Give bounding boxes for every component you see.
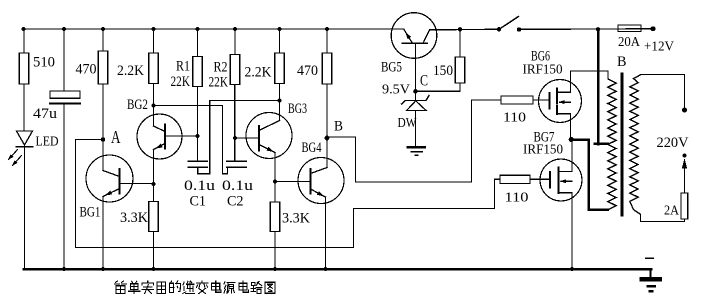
label 3.3K right [282,211,311,227]
fuse 20A [618,25,641,32]
junction R2 / rail [233,27,237,31]
transistor BG5 [391,13,437,92]
resistor 2.2K right [275,29,284,101]
svg-text:C2: C2 [227,194,244,210]
svg-text:BG3: BG3 [288,101,307,117]
fuse 2A [681,193,688,222]
svg-text:C: C [420,73,428,90]
svg-text:BG1: BG1 [80,205,101,221]
junction node C (zener/BG5 base/150) [413,89,418,94]
svg-text:C1: C1 [190,194,207,210]
junction top-left corner [21,27,25,31]
label 470 [76,62,97,78]
svg-text:470: 470 [297,63,318,79]
wire node A to BG7 gate resistor (left-down-right route) [76,140,501,248]
label 3.3K left [120,210,149,226]
svg-text:BG5: BG5 [381,60,402,76]
wire (thick) transformer centre tap to +12V rail [595,29,608,144]
resistor R2 22K [230,29,239,161]
label BG2 [127,97,148,113]
svg-text:3.3K: 3.3K [282,211,311,227]
junction 2.2K right / rail [277,27,281,31]
node B junction [325,136,330,141]
label 9.5V [382,82,410,97]
label 2A [664,203,679,218]
label R2 [214,60,228,76]
svg-text:22K: 22K [171,74,191,90]
label C [420,73,428,90]
label 0.1u (C2) [222,178,253,194]
label C1 [190,194,207,210]
svg-text:3.3K: 3.3K [120,210,149,226]
resistor 510 [19,29,28,131]
svg-text:22K: 22K [209,75,229,91]
junction 150 resistor / rail [458,27,462,31]
svg-text:LED: LED [36,134,59,149]
resistor 470 right [322,29,331,138]
capacitor C2 0.1u [227,85,247,168]
junction 2.2K resistor / rail [151,27,155,31]
svg-text:IRF150: IRF150 [523,142,563,157]
label 470 right [297,63,318,79]
svg-text:+12V: +12V [644,40,674,55]
svg-text:R2: R2 [214,60,228,76]
MOSFET BG6 IRF150 [539,71,582,140]
label LED [36,134,59,149]
transformer T1 primary winding (and wire from BG6 drain) [571,71,617,210]
transformer T1 core [620,74,623,215]
svg-text:A: A [111,127,121,147]
label 510 [33,55,55,71]
junction BG3 base node (R2/C2) [233,136,237,140]
junction BG2 base node (R1/C1) [195,134,199,138]
svg-text:BG2: BG2 [127,97,148,113]
label 47u [33,106,57,122]
resistor 3.3K right [270,182,279,270]
resistor 2.2K left [149,29,158,106]
label 22K (R1) [171,74,191,90]
wire node B to BG6 gate resistor (right-down-right-up route) [327,100,501,182]
label BG1 [80,205,101,221]
resistor 110 (BG7 gate) [500,175,549,183]
junction transformer centre tap / rail [596,27,600,31]
svg-text:2.2K: 2.2K [117,63,144,79]
label 20A [618,34,640,49]
label IRF150 (BG6) [523,62,563,77]
label BG4 [302,140,323,156]
output terminal lower arrow [682,153,687,193]
svg-text:110: 110 [505,191,529,206]
junction 470 resistor / rail [101,27,105,31]
junction BG1 emitter / rail [101,267,105,271]
transistor BG2 [137,106,198,185]
junction BG3 collector node [277,98,281,102]
label BG6 [531,49,550,65]
label +12V [644,40,674,55]
junction BG2 collector node [151,103,155,107]
junction BG6 source - BG7 drain - primary lower end [569,137,574,142]
MOSFET BG7 IRF150 [540,140,582,270]
junction BG4 emitter / rail [323,267,327,271]
label B [334,119,343,135]
resistor 110 (BG6 gate) [501,96,549,104]
label 2.2K left [117,63,144,79]
wire BG2 collector to C2 bottom [154,106,228,174]
label BG3 [288,101,307,117]
junction BG7 source / rail [570,267,574,271]
junction BG1 base / BG2 emitter / 3.3K [151,182,155,186]
zener diode DW [402,91,430,146]
transistor BG1 [86,140,154,270]
svg-text:2.2K: 2.2K [245,65,272,81]
transistor BG3 [235,101,292,182]
label C2 [227,194,244,210]
svg-text:150: 150 [433,63,453,79]
ground (main, right end of rail) [642,258,660,291]
label 220V [657,135,690,151]
label DW [398,115,417,130]
resistor 150 [416,29,465,91]
capacitor 47u electrolytic [50,29,80,269]
svg-text:DW: DW [398,115,417,130]
svg-text:110: 110 [503,111,526,126]
wire bottom ground rail [24,268,652,271]
wire (thick) junction to transformer primary bottom [571,140,607,210]
svg-text:2A: 2A [664,203,679,218]
label 0.1u (C1) [184,178,215,194]
label 110 top [503,111,526,126]
+12V supply terminal [651,26,656,31]
svg-text:0.1u: 0.1u [184,178,215,194]
svg-text:470: 470 [76,62,97,78]
node A junction [101,137,106,142]
LED emission arrows [8,150,22,167]
label B (transformer) [617,54,627,70]
label R1 [176,59,190,75]
LED D1 [17,131,33,269]
resistor 470 [98,29,107,140]
label A [111,127,121,147]
junction 47u / rail [62,267,66,271]
transistor BG4 [275,138,344,269]
svg-text:0.1u: 0.1u [222,178,253,194]
wire top supply rail left section (regulated rail to BG5 emitter) [24,28,405,30]
ground (zener) [408,147,425,155]
svg-text:B: B [617,54,627,70]
label 22K (R2) [209,75,229,91]
junction R1 / rail [195,27,199,31]
capacitor C1 0.1u [188,161,207,167]
wire top rail from switch to +12V terminal [519,28,653,31]
wire BG3 collector to C1 bottom [198,101,280,174]
label BG5 [381,60,402,76]
svg-text:R1: R1 [176,59,190,75]
wire top rail from BG5 collector to switch [430,28,500,31]
svg-text:20A: 20A [618,34,640,49]
svg-text:9.5V: 9.5V [382,82,410,97]
label 110 bottom [505,191,529,206]
switch S contacts and blade [497,17,521,32]
svg-text:B: B [334,119,343,135]
svg-text:47u: 47u [33,106,57,122]
output terminal upper (220V) [682,75,687,113]
label 150 [433,63,453,79]
resistor 3.3K left [149,184,158,269]
junction 3.3K right / rail [273,267,277,271]
junction BG3 emitter / BG4 base / 3.3K [273,179,277,183]
svg-text:BG4: BG4 [302,140,323,156]
junction 47u cap / rail [62,27,66,31]
label BG7 [534,130,555,146]
resistor R1 22K [193,29,202,161]
junction 3.3K left / rail [151,267,155,271]
svg-text:IRF150: IRF150 [523,62,563,77]
svg-text:220V: 220V [657,135,690,151]
caption 简单实用的逆变电源电路图 (approximated strokes) [115,281,275,294]
label IRF150 (BG7) [523,142,563,157]
transformer T1 secondary winding and output wires [630,75,685,222]
svg-text:510: 510 [33,55,55,71]
junction 470 right / rail [325,27,329,31]
label 2.2K right [245,65,272,81]
